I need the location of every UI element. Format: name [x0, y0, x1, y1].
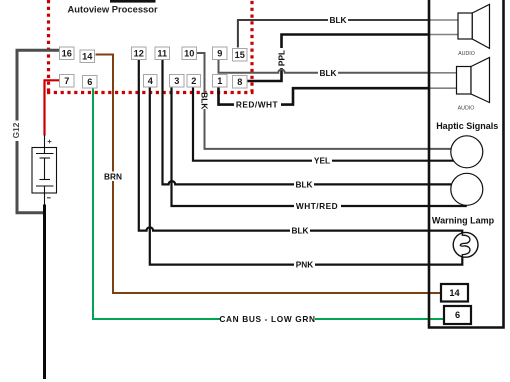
svg-text:BLK: BLK: [319, 68, 336, 78]
wire BRN pin14 to box 14: [96, 55, 442, 294]
connector pin 9: [213, 47, 228, 60]
title block (cut off at top): [110, 0, 156, 3]
speaker SP1: [458, 4, 490, 48]
connector pin 2: [187, 75, 201, 88]
Autoview Processor enclosure (red dotted box): [47, 0, 254, 93]
svg-text:15: 15: [235, 50, 245, 60]
battery / ground symbol G12: [32, 135, 57, 205]
svg-text:7: 7: [64, 76, 69, 86]
warning lamp L1: [453, 231, 478, 265]
connector pin 12: [132, 47, 147, 60]
ground stem wire: [43, 205, 46, 380]
connector pin 14: [80, 50, 95, 63]
svg-text:BLK: BLK: [329, 15, 346, 25]
svg-text:G12: G12: [11, 122, 21, 138]
connector pin 15: [233, 49, 248, 62]
svg-text:RED/WHT: RED/WHT: [236, 100, 278, 110]
wire BLK pin10 to haptic motor 1: [196, 53, 451, 149]
svg-text:AUDIO: AUDIO: [458, 51, 475, 57]
connector pin 11: [155, 47, 170, 60]
wire WHT/RED pin3 to haptic motor 2 bottom: [172, 87, 467, 211]
svg-text:11: 11: [157, 48, 167, 58]
wire BLK pin12 to warning lamp top (hop over pin4 wire): [139, 60, 463, 236]
wire PNK pin4 to warning lamp bottom: [150, 87, 463, 269]
svg-text:3: 3: [174, 76, 179, 86]
svg-text:PNK: PNK: [296, 260, 314, 270]
wire BLK pin15 to speaker1 top: [238, 15, 458, 48]
connector pin 6: [83, 76, 98, 89]
svg-text:BRN: BRN: [104, 172, 122, 182]
battery polarity labels: [48, 140, 52, 144]
wire PPL pin8 to speaker1 bottom: [247, 35, 458, 82]
svg-text:PPL: PPL: [277, 50, 287, 66]
svg-text:YEL: YEL: [314, 156, 330, 166]
svg-text:8: 8: [237, 77, 242, 87]
svg-text:14: 14: [82, 51, 93, 61]
terminal box 14: [441, 284, 468, 302]
svg-text:2: 2: [191, 76, 196, 86]
wire GRY pin16 to G12: [11, 50, 60, 213]
haptic motor M1: [451, 136, 483, 168]
wire BLK pin11 to haptic motor 2 (hop over pin3 wire): [163, 60, 452, 190]
svg-text:12: 12: [134, 48, 144, 58]
wire GRN pin6 CAN BUS - LOW: [93, 88, 444, 324]
vehicle side enclosure box: [429, 0, 504, 328]
svg-text:1: 1: [217, 76, 222, 86]
wire RED/WHT pin1 to speaker2 bottom: [219, 87, 457, 109]
wire YEL pin2 to haptic motor 1: [193, 87, 454, 165]
wire RED pin7 to battery +: [45, 80, 60, 135]
svg-text:6: 6: [87, 77, 92, 87]
svg-text:10: 10: [184, 48, 194, 58]
connector pin 16: [60, 47, 75, 60]
haptic motor M2: [451, 173, 483, 205]
wire BLK pin9 to speaker2 top (hop over PPL riser): [219, 59, 457, 78]
svg-text:BLK: BLK: [295, 179, 312, 189]
speaker SP2: [457, 58, 490, 103]
svg-text:WHT/RED: WHT/RED: [296, 201, 338, 211]
svg-text:BLK: BLK: [200, 92, 210, 109]
connector pin 3: [170, 75, 185, 88]
connector pin 4: [144, 75, 158, 88]
svg-text:14: 14: [449, 288, 460, 298]
svg-text:Warning Lamp: Warning Lamp: [432, 216, 495, 226]
svg-text:Haptic Signals: Haptic Signals: [436, 121, 498, 131]
svg-text:AUDIO: AUDIO: [458, 106, 475, 112]
connector pin 8: [233, 76, 248, 89]
svg-text:Autoview Processor: Autoview Processor: [68, 4, 158, 15]
svg-text:16: 16: [62, 48, 72, 58]
connector pin 7: [60, 75, 75, 88]
svg-text:BLK: BLK: [291, 226, 308, 236]
svg-text:CAN BUS - LOW GRN: CAN BUS - LOW GRN: [219, 314, 315, 324]
connector pin 1: [213, 75, 228, 88]
terminal box 6: [444, 306, 471, 324]
svg-text:6: 6: [455, 310, 460, 320]
connector pin 10: [182, 47, 197, 60]
svg-text:9: 9: [217, 48, 222, 58]
svg-text:4: 4: [148, 76, 154, 86]
